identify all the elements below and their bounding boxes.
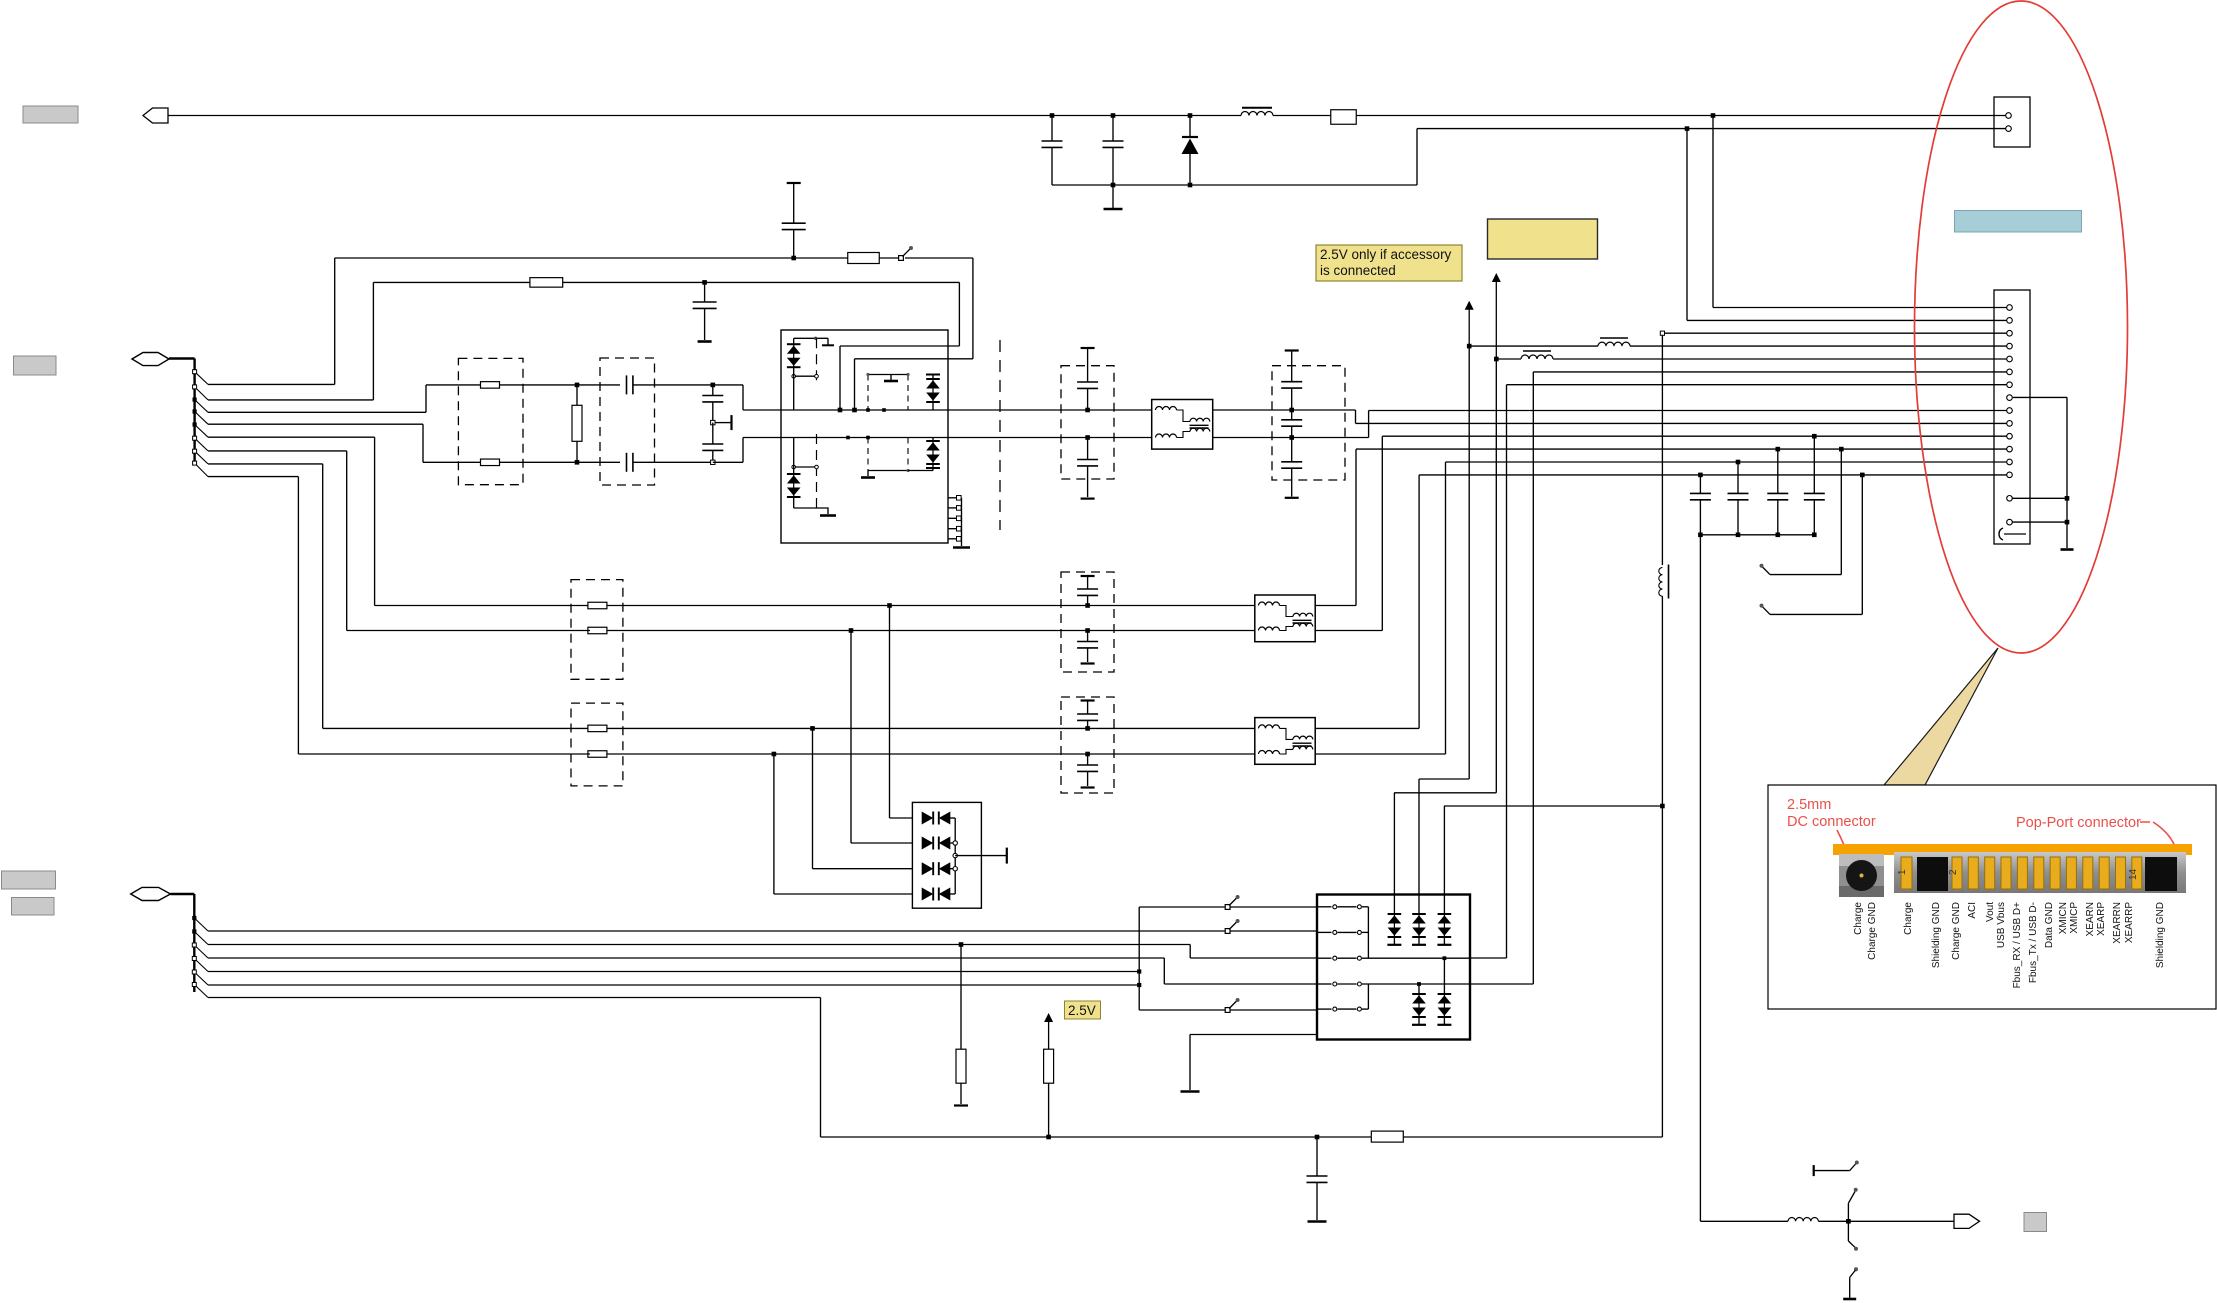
wire FBusRX left (375, 605, 590, 607)
svg-text:USB Vbus: USB Vbus (1996, 902, 2007, 948)
switch S1 (1225, 895, 1239, 909)
dashed isolation line (999, 340, 1001, 530)
wire VBUS switch rail (335, 257, 898, 259)
connector X100 (DC jack) body (1994, 97, 2030, 147)
svg-text:Charge GND: Charge GND (1867, 902, 1878, 960)
capacitor C106a with terminal (1077, 348, 1098, 410)
wire pin5 VBus with inductor (1496, 351, 2008, 359)
junction U100 D- b (866, 436, 870, 440)
U100 through wire D- (781, 437, 948, 439)
wire return to DC pin2 (1687, 128, 2006, 130)
V101 common link (953, 818, 957, 894)
svg-text:2.5V only if accessory: 2.5V only if accessory (1320, 247, 1452, 262)
U100 gate bracket top-right (866, 373, 909, 410)
V101 bowtie row4 (922, 888, 956, 901)
junction C109b (1085, 752, 1090, 757)
wire FBusTX left (347, 630, 590, 632)
svg-text:XEARP: XEARP (2096, 902, 2107, 936)
wire acc6 (HeadInt) (208, 998, 821, 1138)
wire drop to V101 row3 (813, 728, 913, 868)
wire XEARN mid (607, 753, 1255, 755)
gray placeholder label (bottom-left a) (2, 871, 56, 889)
junction switch SB (1860, 473, 1865, 478)
junction acc5 on bus (1137, 983, 1141, 987)
capacitor C100 (1042, 116, 1063, 186)
wire D- T100 to C107 (1213, 437, 1369, 439)
resistor R102 (530, 278, 563, 288)
U100 bottom-left gate tail (794, 497, 836, 515)
photo pin labels (rotated) (1853, 902, 2166, 989)
junction C108b (1085, 628, 1090, 633)
U100 ESD diode pair bottom-left (787, 474, 801, 497)
wire pin16 (2012, 521, 2067, 523)
junction on top rail at C101 (1111, 113, 1116, 118)
switch SD lower to ground (1843, 1221, 1858, 1299)
resistor R103 (termination) (572, 385, 582, 462)
junction C105 bottom (711, 460, 715, 464)
U100 source line left-bottom (792, 438, 818, 475)
capacitor C104a (series) (627, 375, 713, 394)
capacitor box C104 (dashed) (600, 358, 655, 485)
resistor Z101a (588, 602, 607, 609)
svg-text:XEARN: XEARN (2085, 902, 2096, 936)
X101 pin15 (2007, 496, 2013, 502)
junction U100 D- a (846, 436, 850, 440)
capacitor C110 (1690, 475, 1711, 535)
common-mode choke T102 body (1255, 718, 1315, 765)
wire D+ jog into U100 (713, 385, 781, 410)
svg-text:XEARRP: XEARRP (2124, 902, 2135, 943)
wire fan2 to sense rail (208, 399, 373, 401)
wire D+ jog to pin10 (1356, 410, 2009, 423)
wire S1 to U101 (1230, 906, 1317, 908)
junction C109a (1085, 726, 1090, 731)
wire acc1 (to switch row) (208, 930, 1228, 932)
svg-text:Charge GND: Charge GND (1951, 902, 1962, 960)
U100 control pins to ground (948, 496, 970, 548)
ground below C101 (1104, 185, 1123, 209)
junction pin16 gnd (2065, 520, 2070, 525)
wire charger return rail (1052, 129, 1687, 185)
wire D- out of U100 (948, 437, 1152, 439)
svg-text:Charge: Charge (1853, 902, 1864, 935)
wire acc3 to U101 (1164, 983, 1317, 985)
U101 through wire 958 (1362, 957, 1470, 959)
arrow Vout feed (1465, 301, 1474, 346)
capacitor C103 to ground (693, 282, 717, 341)
yellow label box (blank) (1488, 219, 1598, 259)
junction return rail at V100 (1188, 183, 1193, 188)
Pop-Port connector photo (1894, 852, 2186, 893)
junction C106b (1085, 435, 1090, 440)
wire S2 to U101 (1230, 930, 1317, 932)
gray placeholder label (net name, redacted) (23, 106, 78, 123)
wire XEARP mid (607, 727, 1255, 729)
resistor R101 (848, 253, 880, 264)
svg-text:Shielding GND: Shielding GND (1931, 902, 1942, 968)
wire fan7 (XEAR P) (208, 464, 323, 729)
wire V_CHAR top rail (168, 115, 2006, 117)
wire D- jog to pin9 (1369, 411, 2008, 438)
U100 source line left-top (792, 367, 818, 410)
switch SA (hook det 1) (1760, 449, 1842, 574)
U100 ESD diode pair top-right (926, 375, 940, 411)
svg-text:is connected: is connected (1320, 263, 1396, 278)
U100 drop 840 from wrap wire (838, 346, 843, 412)
wire acc4 (208, 971, 1139, 973)
X101 shield pin (1999, 528, 2026, 540)
wire pin6 XMICN (1533, 371, 2008, 373)
diode array V101 body (912, 802, 981, 908)
svg-text:14: 14 (2128, 868, 2139, 880)
V101 bowtie row1 (922, 812, 956, 825)
T102 windings (1259, 725, 1313, 754)
bus stem middle (169, 359, 195, 464)
wire fan5 (FBus RX) (208, 437, 375, 605)
junction C113 (1812, 434, 1817, 439)
capacitor C101 (1103, 116, 1124, 186)
corridor Vbus to U101 col1 (1394, 359, 1496, 793)
U101 ground tail (1181, 1035, 1318, 1092)
capacitor C105b (702, 423, 723, 463)
junction U100 D+ b (882, 408, 886, 412)
T101 windings (1259, 602, 1313, 630)
IC U100 (USB/charger switch) body (781, 330, 948, 543)
U100 gate bracket bottom-right (861, 438, 910, 478)
junction XEAR out (1846, 1219, 1851, 1224)
wire XEAR out rail (1700, 535, 1788, 1222)
corridor Vout to U101 col2 (1419, 346, 1469, 779)
wire acc2 to U101 (1190, 957, 1317, 959)
junction U100 D+ a (866, 408, 870, 412)
capacitor box C108 (dashed) (1061, 572, 1114, 672)
wire D- into Z100 (423, 461, 481, 463)
bus stem bottom (171, 894, 195, 992)
capacitor C105a (702, 385, 723, 423)
wire drop to V101 row2 (851, 631, 912, 844)
red highlight ellipse (1915, 1, 2128, 653)
wire XEARN left (298, 753, 590, 755)
resistor Z100a (481, 382, 500, 389)
capacitor box C106 (dashed) (1061, 366, 1114, 479)
wire FBusTX to pin11 (1315, 436, 2008, 630)
wire pin3 ACI (1660, 331, 2008, 335)
T100 windings (1156, 407, 1210, 438)
junction acc4 on bus (1137, 969, 1141, 973)
EMI filter Z101 (dashed) (571, 580, 623, 680)
switch SC upper with terminal (1814, 1161, 1859, 1222)
svg-text:Pop-Port connector: Pop-Port connector (2016, 815, 2141, 831)
junction switch SA (1839, 447, 1844, 452)
U101 ESD stack col1 (1387, 793, 1401, 945)
svg-text:Vout: Vout (1985, 902, 1996, 922)
svg-text:ACI: ACI (1967, 902, 1978, 919)
wire fan6 (FBus TX) (208, 451, 347, 631)
svg-text:XEARRN: XEARRN (2112, 902, 2123, 944)
switch SB (hook det 2) (1760, 475, 1863, 615)
vertical bus link (acc rows) (1138, 907, 1140, 1010)
capacitor C108a with terminal (1077, 576, 1098, 606)
label 2.5V (1065, 1001, 1101, 1019)
junction R103 bottom (575, 460, 580, 465)
svg-text:2: 2 (1948, 869, 1959, 875)
gray placeholder label (bottom-right) (2024, 1213, 2047, 1232)
capacitor C104b (series) (627, 453, 713, 472)
wire pin4 Vout with inductor (1469, 338, 2008, 346)
switch S2 (1225, 919, 1239, 933)
capacitor C112 (1767, 449, 1788, 535)
wire to output arrow (1818, 1220, 1954, 1222)
U100 ESD diode pair top-left (787, 338, 801, 367)
resistor R100 (1331, 110, 1357, 125)
junction FBusRX drop (887, 603, 892, 608)
U100 dashed gate vertical left (816, 338, 818, 508)
inductor L100 (shielded) (1241, 108, 1273, 116)
U100 drop 854 from wrap wire (852, 359, 857, 413)
vertical from net arrow wire2 (372, 282, 374, 400)
U101 inner bracket lower (1362, 984, 1368, 1009)
U100 ESD diode pair bottom-right (908, 438, 940, 471)
wire switch row1 (1139, 906, 1227, 908)
X100 pin2 (2006, 126, 2012, 132)
junction Vout corridor (1467, 344, 1472, 349)
capacitor C106b with terminal (1077, 438, 1098, 499)
IC U101 (accessory interface) body (1317, 895, 1470, 1040)
junction on return wire at X101 drop (1685, 126, 1690, 131)
junction on top rail at C100 (1050, 113, 1055, 118)
X101 pin16 (2007, 519, 2013, 525)
capacitor C107a with terminal (1281, 351, 1302, 411)
capacitor C102 with terminal above (782, 183, 806, 258)
net arrow XEAR output (pointing right) (1954, 1214, 1980, 1228)
gray placeholder label (bottom-left b) (12, 898, 55, 916)
net arrow V_CHAR (input, pointing left) (143, 108, 168, 123)
wire XEARP to pin14 (1315, 475, 2008, 729)
wire D+ T100 to C107 (1213, 409, 1356, 411)
cap ground rail (1698, 533, 1817, 538)
junction FBusTX drop (849, 628, 854, 633)
X100 pin1 (2006, 113, 2012, 119)
capacitor C109a with terminal (1077, 701, 1098, 729)
svg-text:Charge: Charge (1903, 902, 1914, 935)
V101 bowtie row2 (922, 837, 956, 850)
resistor R106 (1371, 1131, 1403, 1142)
wire acc3 (208, 958, 1164, 984)
svg-text:Fbus_Tx / USB D-: Fbus_Tx / USB D- (2028, 902, 2039, 983)
svg-text:2.5V: 2.5V (1068, 1003, 1096, 1018)
resistor Z102a (588, 725, 607, 732)
corridor XMICP to U101 (1470, 385, 1507, 958)
switch test point on wire 258 (899, 246, 913, 260)
capacitor C108b with terminal (1077, 631, 1098, 664)
wire D+ out of U100 (948, 409, 1152, 411)
vertical from net arrow wire1 (334, 258, 336, 384)
wire FBusTX mid (607, 630, 1255, 632)
junction C107b (1289, 435, 1294, 440)
U101 inner bracket upper (1362, 907, 1368, 958)
junction C114 (1315, 1135, 1320, 1140)
junction C107a (1289, 408, 1294, 413)
capacitor C114 to ground (1307, 1137, 1328, 1222)
corridor ACI wire (1444, 805, 1662, 807)
net arrow X_ACC (bus, bottom-left) (131, 887, 171, 900)
blue label box (blank) (1955, 211, 2082, 233)
junction pin15 gnd (2065, 496, 2070, 501)
junction XEARN drop (772, 752, 777, 757)
wire fan8 (XEAR N) (208, 477, 298, 754)
U100 through wire D+ (781, 409, 948, 411)
resistor R104 pulldown (954, 945, 968, 1106)
bus fan-out taps (middle) (193, 370, 209, 477)
V101 common output with terminal (955, 848, 1007, 864)
photo panel frame (1768, 785, 2216, 1009)
wire fan3 (USB D+) (208, 385, 426, 412)
resistor Z100b (481, 459, 500, 466)
zener diode V100 (1182, 116, 1199, 186)
svg-text:Shielding GND: Shielding GND (2155, 902, 2166, 968)
capacitor box C109 (dashed) (1061, 697, 1114, 793)
U101 ESD stack col3 lower (1437, 958, 1451, 1025)
junction ACI to U101 col3 (1660, 804, 1665, 809)
wire 282 wrap to block (840, 282, 959, 346)
junction C108a (1085, 603, 1090, 608)
wire 258 wrap to block (855, 258, 973, 359)
U101 through wire 984 (1362, 983, 1470, 985)
wire XEARP left (323, 727, 590, 729)
resistor Z101b (588, 627, 607, 634)
callout wedge (1884, 648, 1998, 785)
inductor L101 (1788, 1218, 1818, 1222)
capacitor C113 (1804, 436, 1825, 535)
capacitor C109b with terminal (1077, 754, 1098, 788)
junction Vbus corridor (1494, 357, 1499, 362)
capacitor C111 (1728, 462, 1749, 535)
wire FBusRX to pin12 (1315, 449, 2008, 605)
junction C105 top (711, 383, 716, 388)
EMI filter Z100 (dashed) (458, 358, 523, 484)
wire pin8 DataGND (2013, 397, 2074, 549)
wire XEARN to pin13 (1315, 462, 2008, 754)
wire switch row3 (1139, 1009, 1227, 1011)
wire S3 to U101 (1230, 1009, 1317, 1011)
resistor R105 pullup to 2.5V (1044, 1013, 1054, 1137)
capacitor box C107 (dashed) (1272, 366, 1345, 480)
arrow 2.5V feed (accessory) (1492, 273, 1501, 359)
junction on top rail at X100 drop (1711, 113, 1716, 118)
wire X101 pin2 drop (1687, 129, 2008, 321)
junction at C103 (702, 280, 707, 285)
bus fan-out taps (bottom) (192, 916, 208, 998)
capacitor C107b (mid) (1281, 410, 1302, 438)
svg-text:2.5mm: 2.5mm (1787, 797, 1831, 813)
orange PCB edge bar (1833, 844, 2192, 855)
U100 gate line top-left (794, 337, 834, 346)
U101 ESD stack col2 lower (1412, 984, 1426, 1025)
junction col2 row984 (1417, 982, 1421, 986)
junction C106a (1085, 408, 1090, 413)
capacitor C107c with terminal (1281, 438, 1302, 498)
label Pop-Port connector (red) (2016, 815, 2177, 852)
wire acc2 (208, 945, 1190, 959)
wire X100 pin1 drop (1713, 116, 2008, 308)
wire D+ into Z100 (426, 384, 481, 386)
wire FBusRX mid (607, 605, 1255, 607)
common-mode choke T101 body (1255, 595, 1315, 642)
DC connector photo (1839, 854, 1884, 897)
wire fan1 to VBUS rail (208, 383, 335, 385)
gray placeholder label (middle-left) (14, 356, 57, 375)
node C105 mid with terminal (711, 415, 732, 430)
wire drop to V101 row1 (890, 606, 913, 819)
svg-text:Data GND: Data GND (2044, 902, 2055, 948)
svg-text:1: 1 (1897, 869, 1908, 875)
wire D+ Z100 to C104 (500, 384, 621, 386)
junction return rail at C101 (1111, 183, 1116, 188)
wire VBUS sense rail (373, 281, 959, 283)
V101 bowtie row3 (922, 862, 956, 875)
resistor Z102b (588, 751, 607, 758)
svg-text:XMICP: XMICP (2069, 902, 2080, 934)
junction col3 row958 (1443, 956, 1447, 960)
junction C110 (1698, 473, 1703, 478)
wire D- jog into U100 (713, 438, 781, 463)
svg-text:DC connector: DC connector (1787, 814, 1876, 830)
wire pin7 XMICP (1507, 384, 2009, 386)
wire D- Z100 to C104 (500, 461, 621, 463)
svg-text:XMICN: XMICN (2058, 902, 2069, 934)
junction on top rail at V100 (1188, 113, 1193, 118)
junction C112 (1776, 447, 1781, 452)
label 2.5mm DC connector (red) (1787, 797, 1876, 858)
U101 input pins (1317, 905, 1361, 1011)
svg-text:Fbus_RX / USB D+: Fbus_RX / USB D+ (2012, 902, 2023, 989)
note: 2.5V only if accessory is connected (1316, 245, 1462, 281)
U101 ESD stack col2 (1412, 779, 1426, 945)
common-mode choke T100 body (1152, 400, 1213, 450)
X101 pins 1-14 (2007, 305, 2013, 478)
junction at C102 (791, 256, 796, 261)
junction R103 top (575, 383, 580, 388)
wire acc5 (208, 984, 1139, 986)
junction C111 (1736, 460, 1741, 465)
U101 ESD stack col3 (1437, 806, 1451, 945)
wire drop to V101 row4 (774, 754, 913, 894)
corridor XMICN to U101 (1470, 372, 1533, 984)
wire HeadInt rail (821, 1136, 1663, 1138)
connector X101 (Pop-Port) body (1994, 290, 2030, 544)
switch S3 (1225, 998, 1239, 1012)
corridor ACI ferrite (1659, 333, 1669, 1137)
junction R105 bottom (1046, 1135, 1051, 1140)
junction XEARP drop (810, 726, 815, 731)
net arrow X_POP (bus, middle-left) (132, 353, 169, 366)
wire pin15 (2012, 497, 2067, 499)
EMI filter Z102 (dashed) (571, 703, 623, 786)
junction R104 tap (959, 942, 964, 947)
wire fan4 (USB D-) (208, 424, 423, 462)
